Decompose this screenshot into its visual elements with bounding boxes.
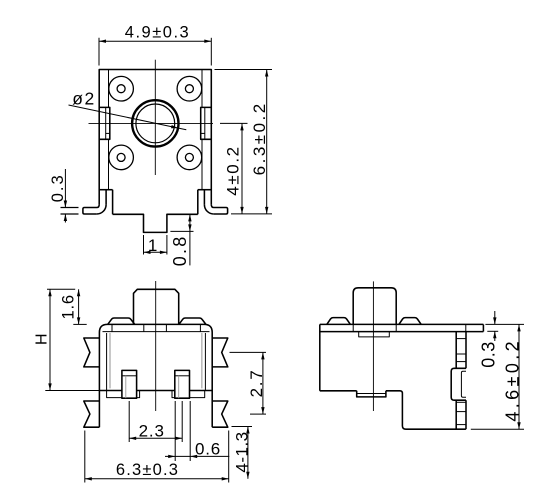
side view: bottom recess bbox=[357, 391, 386, 397]
svg-text:0.8: 0.8 bbox=[170, 235, 190, 267]
side view: tab under button bbox=[359, 332, 390, 337]
top view dim: 0.8 protrusion depth bbox=[170, 230, 193, 232]
front view: upper right flange with break notch bbox=[212, 338, 228, 367]
front view dim: 1.6 button height bbox=[73, 323, 86, 325]
svg-text:4±0.2: 4±0.2 bbox=[224, 145, 243, 195]
side view dim: 0.3 flange thickness bbox=[485, 323, 524, 325]
front view dim: 6.3±0.3 overall width bbox=[84, 431, 86, 483]
svg-text:4-1.3: 4-1.3 bbox=[232, 431, 251, 472]
front view: left terminal pin bbox=[122, 370, 137, 398]
side view: left contact dome bump bbox=[327, 318, 351, 325]
top view: inner cover outline lines bbox=[108, 70, 110, 108]
svg-text:6.3±0.3: 6.3±0.3 bbox=[116, 461, 179, 479]
svg-text:H: H bbox=[34, 332, 51, 345]
front view: push button stem bbox=[134, 289, 179, 324]
front view: left base lip bbox=[107, 391, 140, 398]
front view: base line bbox=[45, 390, 99, 392]
side view: bottom edge and bent foot bbox=[386, 391, 466, 429]
top view: right bent lead (foot) bbox=[211, 205, 227, 214]
front view: upper left flange with break notch bbox=[84, 338, 100, 367]
front view: right strap edge bbox=[211, 338, 213, 427]
top view: switch body outline bbox=[99, 70, 211, 205]
front view: lower left flange with break notch bbox=[84, 401, 100, 427]
front view: lower right flange with break notch bbox=[212, 401, 228, 427]
side view: cover top plate / right flange bbox=[320, 323, 484, 325]
front view: left contact dome bump bbox=[108, 318, 135, 324]
svg-text:2.7: 2.7 bbox=[247, 369, 266, 398]
front view dim: H overall height bbox=[47, 288, 75, 290]
top view dim: 0.3 lead thickness bbox=[61, 207, 79, 209]
svg-text:0.3: 0.3 bbox=[478, 341, 498, 368]
side view: right contact dome bump bbox=[399, 318, 421, 325]
front view dim: 4-1.3 lead length bbox=[232, 426, 253, 428]
svg-text:ø2: ø2 bbox=[72, 89, 95, 109]
svg-text:2.3: 2.3 bbox=[139, 421, 165, 440]
top view: bottom step edges bbox=[99, 189, 112, 191]
top view dim: 1 protrusion width bbox=[143, 235, 145, 255]
top view: central plunger circle (inner) bbox=[136, 104, 175, 143]
top view: left side tab bbox=[99, 107, 110, 139]
top view: center lines (crosshair) bbox=[89, 122, 214, 124]
svg-text:0.6: 0.6 bbox=[195, 440, 221, 459]
svg-text:4.6±0.2: 4.6±0.2 bbox=[502, 338, 522, 422]
front view: right contact dome bump bbox=[179, 318, 206, 324]
front view dim: 0.6 pin width bbox=[174, 401, 176, 461]
top view: bottom edge with center protrusion bbox=[113, 214, 198, 232]
front view: right base lip bbox=[172, 391, 205, 398]
front view: cover top plate with corner bends bbox=[99, 324, 212, 338]
front view dim: 2.3 pin spacing bbox=[128, 401, 130, 442]
top view: right side tab bbox=[201, 107, 212, 139]
svg-text:4.9±0.3: 4.9±0.3 bbox=[125, 24, 190, 42]
top view: left bent lead (foot) bbox=[83, 205, 99, 214]
top view dim: 4±0.2 bbox=[220, 122, 248, 124]
top view dim: 4.9±0.3 width bbox=[98, 38, 100, 66]
top view: central plunger circle (outer) bbox=[132, 100, 178, 146]
front view: center line bbox=[155, 281, 157, 411]
front view: right terminal pin bbox=[175, 370, 190, 398]
side view: middle tab pad bbox=[451, 368, 466, 400]
top view dim: diameter Ø2 leader bbox=[69, 105, 187, 130]
front view dim: 2.7 flange spacing bbox=[230, 351, 267, 353]
svg-text:0.3: 0.3 bbox=[49, 173, 67, 202]
svg-text:1.6: 1.6 bbox=[59, 294, 77, 319]
svg-text:6.3±0.2: 6.3±0.2 bbox=[250, 101, 269, 175]
top view: corner rivet circles bbox=[109, 76, 134, 101]
side view dim: 4.6±0.2 overall height bbox=[471, 428, 524, 430]
side view: body outline bbox=[319, 324, 321, 390]
side view: center line bbox=[372, 281, 374, 411]
side view: push button stem bbox=[353, 288, 396, 325]
svg-text:1: 1 bbox=[148, 236, 159, 255]
top view dim: 6.3±0.2 height bbox=[215, 69, 273, 71]
front view: left strap edge bbox=[98, 338, 100, 427]
front view: body inner edges bbox=[106, 333, 108, 391]
side view: rear strap with tab profile bbox=[455, 332, 457, 369]
